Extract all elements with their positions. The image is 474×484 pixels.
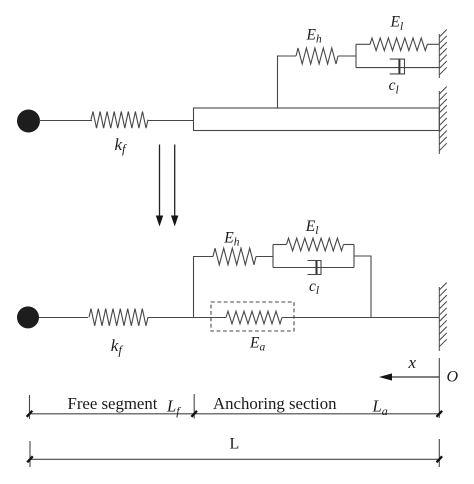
- tick divider (dim 1): [191, 411, 197, 417]
- dimension line L: [30, 458, 439, 460]
- svg-text:Ea: Ea: [249, 334, 265, 353]
- wire node to dashpot to wall (top): [356, 67, 439, 69]
- spring El (top): [370, 38, 427, 51]
- parallel node bar (top): [355, 44, 357, 67]
- svg-text:L: L: [230, 436, 240, 453]
- svg-text:kf: kf: [115, 135, 128, 156]
- axis line at O: [438, 358, 440, 418]
- spring Eh (bottom): [213, 248, 256, 265]
- wire mass to spring kf (bottom): [39, 317, 88, 319]
- wire Eh to parallel node (top): [338, 55, 356, 57]
- extension line right (dim 2): [438, 439, 440, 467]
- svg-text:El: El: [305, 218, 319, 237]
- wall upper right: [439, 30, 447, 79]
- wire bar to Eh branch (top): [278, 56, 297, 108]
- wall lower right: [439, 283, 447, 352]
- wire El to right node (bottom): [344, 244, 355, 246]
- mass circle (top model): [17, 110, 40, 133]
- dashpot cl piston (top): [398, 59, 400, 74]
- svg-text:Anchoring section: Anchoring section: [213, 394, 337, 413]
- svg-text:La: La: [372, 397, 388, 418]
- tick right (dim 1): [437, 411, 443, 417]
- wire mass to spring kf (top): [39, 120, 92, 122]
- wire spring kf to bar (top): [148, 120, 194, 122]
- svg-text:Free segment: Free segment: [68, 394, 158, 413]
- svg-text:Lf: Lf: [166, 397, 181, 418]
- svg-text:cl: cl: [389, 77, 399, 96]
- tick left (dim 2): [27, 456, 33, 462]
- spring El (bottom): [287, 238, 344, 251]
- parallel node bar left (bottom): [272, 245, 274, 268]
- svg-text:x: x: [408, 353, 417, 372]
- anchor bar (top): [194, 108, 440, 131]
- wire node to spring El (top): [356, 43, 370, 45]
- transformation arrow right: [171, 145, 178, 227]
- branch wire up-left (bottom): [194, 257, 214, 318]
- svg-text:kf: kf: [111, 336, 124, 357]
- dashpot cl cylinder (bottom): [308, 261, 322, 275]
- wire kf to Ea (bottom main line): [148, 317, 226, 319]
- transformation arrow left: [156, 145, 163, 227]
- dimension line free segment / anchoring section: [30, 413, 440, 415]
- extension line left (dim 1): [29, 395, 31, 419]
- wire spring El to wall (top): [427, 43, 439, 45]
- svg-text:O: O: [447, 369, 459, 386]
- dashpot cl cylinder (top): [390, 59, 405, 74]
- spring Ea: [226, 311, 282, 324]
- dashed box around Ea: [211, 302, 294, 331]
- wire node to spring El (bottom): [273, 244, 287, 246]
- spring kf (top): [91, 112, 148, 129]
- dashpot cl piston (bottom): [316, 261, 318, 275]
- parallel node bar right (bottom): [353, 245, 355, 268]
- spring kf (bottom): [89, 309, 148, 326]
- wall at bar right (top): [439, 87, 447, 155]
- svg-text:cl: cl: [309, 278, 319, 297]
- arrow x axis: [379, 373, 439, 380]
- wire Eh to parallel node (bottom): [256, 256, 273, 258]
- spring Eh (top): [296, 48, 338, 64]
- svg-text:Eh: Eh: [306, 26, 322, 45]
- svg-text:El: El: [390, 14, 404, 33]
- svg-text:Eh: Eh: [223, 229, 239, 248]
- wire Ea to wall (bottom main line): [282, 317, 439, 319]
- wire lower branch with dashpot (bottom): [273, 267, 354, 269]
- mass circle (bottom model): [17, 306, 39, 328]
- extension line left (dim 2): [29, 441, 31, 467]
- wire right node down to main line (bottom): [354, 256, 371, 318]
- tick right (dim 2): [437, 456, 443, 462]
- tick left (dim 1): [27, 411, 33, 417]
- extension line divider (dim 1): [193, 394, 195, 419]
